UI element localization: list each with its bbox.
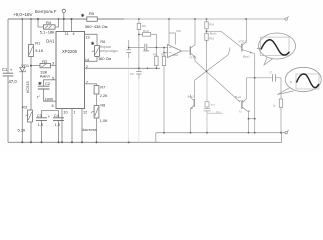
svg-text:Г˚: Г˚ [37,95,41,100]
resistor R17 and capacitor C8 column [207,71,223,132]
pin 13 loop with R6 [85,34,98,61]
svg-text:R2: R2 [42,59,48,64]
wire ground bus right [156,132,285,134]
wire top supply bus right [124,18,286,20]
svg-text:Контроль F: Контроль F [35,9,57,14]
svg-text:✱: ✱ [81,13,85,18]
svg-text:1800: 1800 [44,96,54,101]
resistor R2 (amplitude) [31,65,56,67]
svg-text:С6: С6 [130,72,134,76]
svg-text:14: 14 [85,58,89,62]
svg-text:КТ361: КТ361 [239,101,246,103]
capacitor C6 on pin2 line [138,68,140,79]
transistor VT2 [193,99,195,107]
svg-text:2: 2 [86,65,88,69]
svg-text:R8: R8 [100,104,105,108]
wire left rail C1 [7,19,9,142]
svg-text:+: + [48,114,51,119]
svg-text:1,0: 1,0 [55,122,61,127]
svg-text:Ампл: Ампл [40,74,51,79]
svg-text:11: 11 [65,32,69,36]
svg-text:R16: R16 [177,30,182,33]
oscillogram bottom sine wave [296,74,319,89]
svg-text:3: 3 [52,61,54,65]
svg-text:C3: C3 [37,113,43,118]
wire R8 to ground [96,118,98,142]
svg-text:C4: C4 [54,113,60,118]
wire rail VD1 [21,19,23,142]
wire pin 2 sine output [85,67,161,69]
resistor R14 upper [206,19,208,22]
svg-text:6: 6 [52,104,54,108]
capacitor C5 coupling on signal line [129,47,168,49]
capacitor C7 to ground [128,40,130,58]
svg-text:R17: R17 [211,105,216,107]
svg-text:КТ315: КТ315 [190,57,198,60]
svg-text:360 Ом: 360 Ом [98,57,111,61]
svg-text:С5мк: С5мк [143,49,150,53]
svg-text:1к: 1к [273,103,277,107]
svg-text:Вых3: Вых3 [188,96,195,99]
svg-text:47,0: 47,0 [9,79,18,84]
capacitor C1 [3,73,13,76]
svg-text:Частота: Частота [82,127,98,132]
svg-text:5,1~18К: 5,1~18К [40,29,55,34]
svg-text:Вых2: Вых2 [243,55,250,59]
svg-text:2мк: 2мк [216,111,220,113]
svg-text:КТ315: КТ315 [239,39,247,43]
wire IC bottom pin 10 [61,109,63,143]
transistor VT3 [241,44,243,52]
transistor VT1 [189,46,191,55]
svg-text:R11: R11 [153,52,158,56]
op-amp DA2 [168,45,182,58]
resistor R16 load [279,99,282,107]
svg-text:С7: С7 [269,72,273,75]
output terminal top [285,18,287,20]
resistor R4 [38,19,58,27]
wire op-amp plus input [164,52,168,54]
svg-text:C2: C2 [45,81,51,86]
wire pin 7 to R7 [85,84,97,86]
svg-text:5,1К: 5,1К [35,48,44,53]
wire op-amp output to VT1 [182,50,190,52]
wire IC bottom pin 1 [71,109,73,143]
wire pin 4 drop [71,19,73,32]
wire IC bottom pin 12 [81,109,83,143]
svg-text:R10: R10 [143,29,149,33]
svg-text:2п: 2п [290,81,293,84]
svg-text:1,0: 1,0 [38,122,44,127]
svg-text:Тх: Тх [239,110,242,114]
wire rail R1/R3 [30,19,32,142]
oscillogram top sine wave [261,37,290,56]
capacitor C2 loop pins 5-6 [44,80,57,101]
svg-text:360~438 Ом: 360~438 Ом [85,24,108,29]
svg-text:1,0К: 1,0К [100,119,108,123]
svg-text:+: + [10,68,13,73]
svg-text:C1: C1 [2,67,8,72]
resistor R5 in supply bus [87,17,98,21]
resistor R12 divider [163,48,165,133]
wire output coupling from emitter rail [247,78,282,99]
svg-text:+9,0~18V: +9,0~18V [13,12,33,17]
diagonal wire VT1 emitter to VT4 base [195,61,240,102]
svg-text:DA2: DA2 [173,53,179,57]
transistor VT4 [241,101,243,109]
wire divider to crossing [206,40,208,71]
svg-text:R3: R3 [22,104,28,109]
svg-text:VD1: VD1 [21,63,30,68]
capacitor C3 [42,110,59,142]
svg-text:1: 1 [73,110,75,114]
resistor R9 from bus [138,19,140,68]
svg-text:ХР2206: ХР2206 [62,49,78,54]
wire y118.7 link [249,118,255,120]
svg-text:синусоиды: синусоиды [100,49,118,53]
resistor R11 divider [155,48,157,69]
wire pin 11 drop [63,13,65,32]
svg-text:DA1: DA1 [46,39,55,44]
capacitor C4 [58,110,60,142]
svg-text:R4: R4 [46,20,52,25]
svg-text:Вых1: Вых1 [210,31,217,35]
wire ground bus left [8,141,282,143]
potentiometer R1 [29,45,34,57]
wire R7 to R8 [96,94,98,106]
svg-text:R7: R7 [100,86,105,90]
wire ground bus step [156,133,282,143]
svg-text:R1: R1 [35,41,41,46]
svg-text:✱: ✱ [38,81,42,86]
test point circle [62,9,65,12]
resistor R15 lower [206,29,208,44]
svg-text:7: 7 [86,80,88,84]
svg-text:КС515: КС515 [25,80,30,93]
oscillogram balloon bottom [285,67,321,91]
resistor R10 [139,34,157,47]
resistor R7 [94,86,99,95]
junction dots left buses [21,18,129,143]
svg-text:✱: ✱ [91,41,95,46]
svg-text:R15: R15 [209,36,214,40]
wire top supply bus left [8,18,124,20]
svg-text:R14: R14 [209,23,214,27]
wire VT3 emitter rail [254,54,256,133]
zener diode VD1 КС515 [19,67,25,72]
svg-text:5,1К: 5,1К [18,127,27,132]
svg-text:R5: R5 [89,11,95,16]
junction dots mid right [128,18,282,134]
svg-text:R9: R9 [142,24,146,28]
svg-text:12: 12 [83,110,87,114]
svg-text:10: 10 [63,110,67,114]
potentiometer R6 sine shape [95,46,100,57]
output terminal bottom [285,132,287,134]
wire tap to VT3 base [207,31,242,47]
svg-text:R6: R6 [100,40,105,44]
svg-text:4: 4 [73,32,75,36]
potentiometer R3 [28,110,33,122]
svg-text:13: 13 [85,36,89,40]
oscillogram balloon top [259,33,296,59]
svg-text:2,2К: 2,2К [100,94,108,98]
IC DA1 XP2206 [56,32,85,109]
diagonal wire to VT2 base [195,48,231,99]
svg-text:Вых4: Вых4 [235,96,242,99]
potentiometer R8 frequency [94,106,99,119]
